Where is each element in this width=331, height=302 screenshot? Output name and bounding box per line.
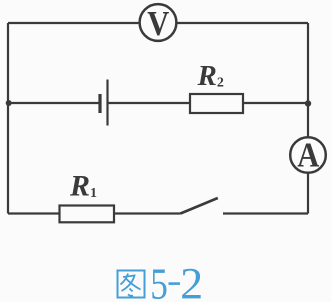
node B: right junction dot (305, 100, 311, 106)
caption dash (169, 282, 181, 285)
caption 图 inner dot 1 (130, 289, 133, 292)
caption 图 inner stroke: horizontal + long left-falling (122, 276, 135, 292)
svg-text:R1: R1 (69, 169, 97, 202)
node A: left junction dot (6, 100, 12, 106)
caption character 图 box (118, 271, 145, 298)
caption 图 inner stroke: top-left falling (121, 274, 129, 285)
caption 图 inner stroke: right-falling (126, 279, 141, 290)
svg-text:5: 5 (150, 259, 168, 302)
svg-text:2: 2 (180, 259, 203, 302)
battery cell E long plate (positive) (106, 80, 108, 126)
wire: left side (7, 23, 9, 214)
switch S lever (181, 198, 218, 214)
ammeter A circle (290, 137, 326, 173)
svg-text:R2: R2 (197, 60, 224, 92)
voltmeter V circle (140, 4, 177, 41)
svg-text:V: V (147, 5, 169, 43)
wire: bottom left segment to switch pivot (8, 212, 181, 214)
wire: top side (8, 22, 308, 24)
wire: middle from battery to right node (109, 102, 309, 104)
resistor R1 body (60, 206, 115, 223)
caption 图 inner dot 2 (128, 295, 133, 296)
battery cell E short plate (negative) (98, 94, 101, 113)
resistor R2 body (190, 94, 243, 113)
wire: right side (307, 23, 309, 214)
svg-text:A: A (297, 137, 319, 175)
wire: middle from left node to battery (8, 102, 100, 104)
wire: bottom right segment from switch gap (223, 212, 308, 214)
